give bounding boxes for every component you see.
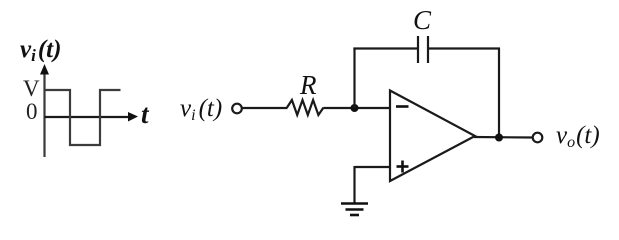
svg-text:vi(t): vi(t) bbox=[180, 95, 222, 124]
wire resistor to node A bbox=[324, 107, 391, 109]
feedback wire down segment bbox=[498, 48, 500, 138]
waveform label v_i(t) bbox=[20, 36, 61, 65]
square wave trace bbox=[45, 90, 121, 145]
op-amp U1 bbox=[390, 91, 475, 182]
wire input terminal to resistor bbox=[243, 107, 288, 109]
waveform horizontal axis bbox=[45, 112, 139, 122]
feedback wire right segment bbox=[428, 47, 500, 49]
wire node A up to feedback bbox=[353, 48, 355, 109]
svg-text:t: t bbox=[141, 99, 150, 129]
op-amp minus sign bbox=[396, 105, 409, 108]
capacitor C bbox=[418, 36, 428, 63]
op-amp plus sign bbox=[397, 161, 409, 173]
svg-text:vo(t): vo(t) bbox=[556, 122, 600, 151]
node A junction dot bbox=[351, 104, 359, 112]
svg-text:C: C bbox=[413, 5, 432, 35]
input terminal circle bbox=[232, 104, 242, 114]
svg-text:0: 0 bbox=[26, 99, 38, 124]
wire noninverting input to ground bbox=[355, 166, 391, 203]
ground bbox=[341, 204, 368, 216]
svg-text:R: R bbox=[299, 70, 317, 100]
output label v_o(t) bbox=[556, 122, 600, 151]
node B junction dot bbox=[495, 134, 503, 142]
output wire bbox=[474, 136, 532, 139]
svg-text:V: V bbox=[23, 76, 40, 101]
input label v_i(t) bbox=[180, 95, 222, 124]
waveform vertical axis bbox=[40, 64, 49, 157]
output terminal circle bbox=[533, 133, 543, 143]
svg-text:vi(t): vi(t) bbox=[20, 36, 61, 65]
resistor R bbox=[287, 100, 324, 115]
feedback wire left segment bbox=[353, 47, 418, 49]
